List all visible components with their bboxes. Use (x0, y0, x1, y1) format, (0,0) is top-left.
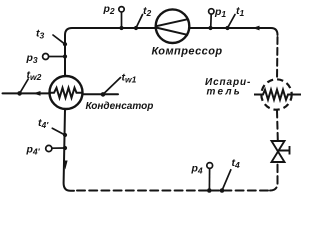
svg-text:t4′: t4′ (38, 117, 49, 130)
svg-text:t3: t3 (36, 28, 45, 41)
svg-text:t2: t2 (143, 5, 152, 18)
svg-text:p3: p3 (26, 52, 38, 65)
svg-text:t1: t1 (236, 5, 245, 18)
svg-text:p4: p4 (191, 163, 203, 176)
svg-text:tw1: tw1 (122, 72, 137, 85)
svg-text:p4′: p4′ (26, 144, 41, 157)
svg-text:t4: t4 (232, 157, 241, 170)
svg-text:p2: p2 (103, 3, 115, 16)
svg-text:Компрессор: Компрессор (152, 46, 223, 58)
svg-text:Конденсатор: Конденсатор (86, 101, 154, 112)
svg-text:tw2: tw2 (27, 69, 42, 82)
svg-text:p1: p1 (214, 6, 226, 19)
svg-text:тель: тель (207, 87, 242, 98)
